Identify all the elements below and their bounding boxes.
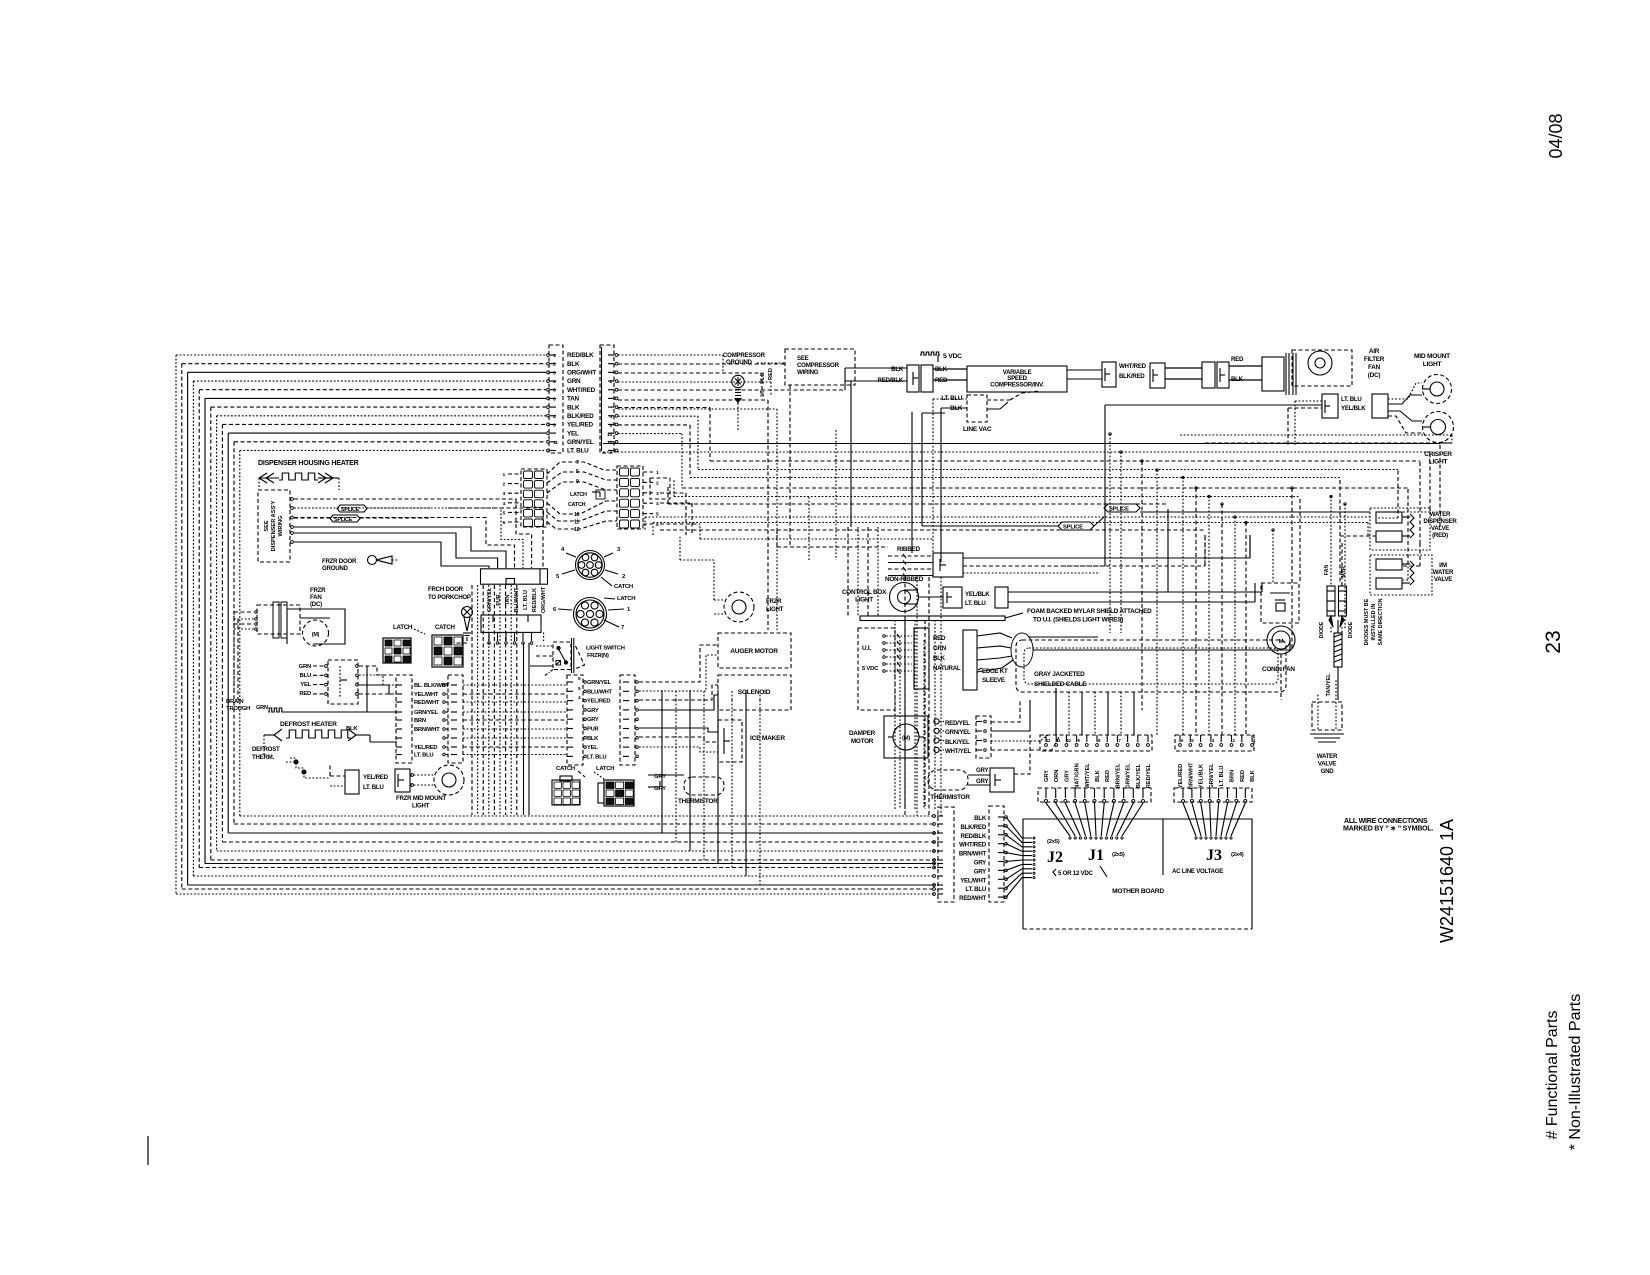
svg-text:WATER: WATER [1317,753,1338,760]
svg-text:RED: RED [1231,356,1244,363]
wire: mid band to frzr light [680,559,714,561]
svg-text:RIBBED: RIBBED [897,546,921,553]
svg-text:NATURAL: NATURAL [933,665,961,672]
header P1 (left) with pin row [1040,735,1152,751]
wire: frzr fan leads [255,611,258,614]
svg-text:FAN: FAN [1324,565,1330,576]
svg-text:WIRING: WIRING [797,369,819,376]
svg-text:CATCH: CATCH [435,624,456,631]
svg-text:11: 11 [574,520,579,526]
svg-text:LT. BLU: LT. BLU [965,886,986,893]
svg-text:LIGHT SWITCH: LIGHT SWITCH [586,646,625,652]
svg-text:5 OR 12 VDC: 5 OR 12 VDC [1058,870,1094,877]
svg-text:FAN: FAN [310,594,322,601]
svg-text:LIGHT: LIGHT [412,803,430,810]
wire bundle: verticals above UI bar [847,527,849,616]
svg-text:MARKED BY ” ∗ ” SYMBOL.: MARKED BY ” ∗ ” SYMBOL. [1343,825,1433,833]
wire: line vac BLK to splice [922,412,945,414]
water dispenser valve (red) [1370,508,1430,550]
svg-text:BLK: BLK [567,404,580,411]
latch grid connector [383,638,411,663]
svg-text:CRISPER: CRISPER [1424,451,1452,458]
header P2 (right) with pin row [1175,735,1254,751]
wire: cable feeds down to board header [1055,692,1057,735]
wire: line vac drops [932,399,934,556]
svg-text:YEL/RED: YEL/RED [567,422,593,429]
svg-text:FOAM BACKED MYLAR SHIELD ATTAC: FOAM BACKED MYLAR SHIELD ATTACHED [1027,608,1152,615]
svg-text:YEL/RED: YEL/RED [363,774,389,781]
margin tick mark [147,1136,149,1165]
svg-text:TROUGH: TROUGH [226,706,250,712]
svg-text:GRN/YEL: GRN/YEL [945,729,971,736]
svg-text:SOLENOID: SOLENOID [738,689,771,696]
svg-text:M: M [1279,639,1284,645]
thermistor (fresh food) [928,770,968,790]
svg-text:TO PORKCHOP: TO PORKCHOP [428,594,471,601]
ice maker [718,720,742,762]
svg-text:YEL/BLK: YEL/BLK [1341,405,1366,412]
wire bundle: middle distribution band [603,443,1440,445]
wire: compressor box drop to band [789,385,791,547]
wire bundle: cross links B to C [463,684,567,686]
svg-text:BLK/RED: BLK/RED [961,824,987,831]
check resistor [1334,633,1342,667]
svg-text:GRY: GRY [974,860,986,867]
connector: board side column [989,806,1004,902]
svg-text:YEL: YEL [300,682,311,688]
mid mount light lamp [1423,375,1452,404]
svg-text:RED/WHT: RED/WHT [414,700,440,706]
svg-text:BRN/WHT: BRN/WHT [414,727,440,733]
wire: light feed down centre [1105,404,1322,406]
wire bundle: right-side nest to valves [1439,445,1441,530]
svg-text:LT. BLU: LT. BLU [587,754,606,760]
vertical wires to diodes [1330,543,1332,586]
svg-text:J2: J2 [1047,849,1063,866]
svg-text:GRN/YEL: GRN/YEL [414,710,439,716]
svg-text:LT.: LT. [760,389,766,397]
svg-text:LT. BLU: LT. BLU [567,448,589,455]
svg-text:PUR: PUR [496,594,502,606]
svg-text:5 VDC: 5 VDC [862,666,879,672]
svg-text:SPLICE: SPLICE [1109,507,1129,513]
wire: splice taps [294,507,330,509]
svg-text:MID MOUNT: MID MOUNT [1414,353,1450,360]
svg-text:GRN/YEL: GRN/YEL [567,439,594,446]
frzr mid mount light lamp [434,765,464,795]
connector column C [567,675,583,765]
svg-text:FILTER: FILTER [1364,356,1385,363]
svg-text:DISPENSER: DISPENSER [1423,518,1457,525]
svg-text:BLK: BLK [587,736,599,742]
svg-text:BLK: BLK [974,815,987,822]
wire: C2 bottom rows into band risers [618,407,710,409]
svg-text:GRY: GRY [974,868,986,875]
svg-text:VALVE: VALVE [1434,576,1452,583]
wire: P3 fan-in to J1 [1046,803,1070,836]
svg-text:YEL: YEL [587,745,598,751]
water valve ground [1312,702,1342,730]
svg-text:YEL/WHT: YEL/WHT [414,692,439,698]
svg-text:(DC): (DC) [310,601,322,608]
svg-text:* Non-Illustrated Parts: * Non-Illustrated Parts [1567,994,1584,1151]
svg-text:LATCH: LATCH [596,766,614,772]
svg-text:LT. BLU: LT. BLU [523,590,529,610]
svg-text:LATCH: LATCH [617,596,635,602]
wire: C2 rows to PLG/RED drop wires [618,399,768,401]
svg-text:FRZR MID MOUNT: FRZR MID MOUNT [396,795,446,802]
svg-text:GRY: GRY [1044,770,1050,782]
compressor power switch [907,365,919,392]
connector: LT BLU YEL/BLK lights feed [1322,394,1338,418]
svg-text:5 VDC: 5 VDC [943,353,962,360]
svg-text:U.I.: U.I. [862,645,871,652]
wire: E2 tails to band [660,492,686,494]
svg-text:BLK/YEL: BLK/YEL [1136,763,1142,788]
svg-text:BRN/YEL: BRN/YEL [1115,763,1121,788]
svg-text:COND. FAN: COND. FAN [1262,666,1295,673]
line vac connector [967,395,987,422]
svg-text:AUGER MOTOR: AUGER MOTOR [730,648,778,655]
connector: harness to board (left column) [938,807,954,902]
wire bundle: band droppers to lower units [1109,434,1111,633]
wire: ribbed outputs [963,557,1250,559]
svg-text:SPLICE: SPLICE [1063,525,1083,531]
svg-text:GRN/YEL: GRN/YEL [487,587,493,612]
wire: lower band rows to ribbed region [700,538,933,540]
svg-text:BLK/YEL: BLK/YEL [945,739,970,746]
svg-text:7: 7 [576,460,579,466]
connector: porkchop bottom [481,615,541,632]
splice 3 [337,505,367,512]
round connector (latch) lower [574,598,607,631]
svg-text:04/08: 04/08 [1546,113,1566,158]
wire bundle: cabinet loom, left nest + top feed + bottom bus [176,354,546,356]
connector column B [448,675,463,763]
wire: damper to header [991,700,1020,722]
frch door ground symbol [462,607,473,618]
crisper light lamp [1423,412,1454,443]
round connector (catch) upper [576,551,605,580]
svg-text:LT. BLU: LT. BLU [965,600,986,607]
svg-text:FRZR(N): FRZR(N) [587,653,609,659]
wire: column fan to J2 [1006,817,1032,838]
wire: solid pair to bus [523,643,525,815]
svg-text:BLK/RED: BLK/RED [567,413,594,420]
svg-text:BLK: BLK [567,361,580,368]
svg-text:GRN/YEL: GRN/YEL [1209,763,1215,789]
wire: dispenser dashed drop to connector corner [448,508,543,568]
svg-text:RED: RED [1105,770,1111,782]
svg-text:ORN: ORN [1054,770,1060,783]
variable speed compressor/inverter [967,366,1067,392]
svg-text:VALVE: VALVE [1318,761,1336,768]
svg-text:FRZR: FRZR [310,587,326,594]
svg-text:RED/BLK: RED/BLK [567,352,594,359]
wire: water valve feeds [1367,523,1369,537]
svg-text:GRN: GRN [567,378,581,385]
svg-text:(2x4): (2x4) [1231,852,1244,858]
svg-text:THERMISTOR: THERMISTOR [930,794,970,801]
svg-text:DIODES MUST BE: DIODES MUST BE [1364,598,1370,645]
svg-text:GRY: GRY [976,767,988,774]
splice 4 [330,515,360,522]
wire: dispenser outputs staircase to door connector [291,498,294,501]
svg-text:GRY: GRY [587,708,599,714]
svg-text:GRY: GRY [1064,770,1070,782]
connector column A (freezer harness) [396,675,412,763]
svg-text:MTR: MTR [1341,566,1347,577]
frzr fan assembly [257,605,300,634]
wire bundle: centre verticals to bus [894,620,896,809]
connector C1 (12-pin, cabinet side) [549,345,563,453]
svg-text:W24151640 1A: W24151640 1A [1437,819,1457,943]
svg-text:BLK: BLK [1095,769,1101,782]
U.I. user interface block [858,628,895,710]
air filter fan lamp [1292,350,1352,386]
svg-text:RED/BLK: RED/BLK [961,833,987,840]
svg-text:LIGHT: LIGHT [1429,459,1448,466]
mother board [1023,819,1252,929]
svg-text:LIGHT: LIGHT [766,606,784,613]
svg-text:WHT/RED: WHT/RED [1119,363,1147,370]
svg-text:CONTROL BOX: CONTROL BOX [842,589,887,596]
svg-text:(2x5): (2x5) [1047,839,1060,845]
svg-text:TAN/YEL: TAN/YEL [1326,673,1332,696]
connector pair mid [1150,363,1165,388]
wire bundle: door harness verticals [471,585,473,815]
connector E1 (2x6 grid) [521,469,547,527]
wire: band risers from E2 tails [673,480,675,497]
header P3 row above motherboard [1038,788,1151,802]
light switch frzr [553,642,571,670]
svg-text:YEL/BLK: YEL/BLK [965,591,990,598]
svg-text:ICE MAKER: ICE MAKER [750,735,785,742]
svg-text:THERMISTOR: THERMISTOR [678,798,718,805]
auger motor [718,633,791,668]
svg-text:FAN: FAN [1368,364,1381,371]
svg-text:LT. BLU: LT. BLU [1219,766,1225,787]
svg-text:NAT/GRN: NAT/GRN [1075,763,1081,788]
svg-text:(DC): (DC) [1368,372,1381,379]
svg-text:INSTALLED IN: INSTALLED IN [1371,603,1377,640]
svg-text:BRN: BRN [414,718,426,724]
frzr door ground lug [368,556,377,565]
svg-text:YEL/RED: YEL/RED [1178,764,1184,789]
svg-text:NON-RIBBED: NON-RIBBED [885,576,924,583]
svg-text:SLEEVE: SLEEVE [982,677,1005,684]
svg-text:WHT/RED: WHT/RED [959,842,987,849]
splice 2 [1104,504,1140,512]
J2 pin stubs [1033,837,1035,839]
svg-text:WATER: WATER [1430,511,1451,518]
svg-text:AC LINE VOLTAGE: AC LINE VOLTAGE [1172,868,1223,875]
svg-text:FRZR: FRZR [766,598,782,605]
svg-text:DISPENSER ASS'Y: DISPENSER ASS'Y [271,500,277,551]
svg-text:WHT/YEL: WHT/YEL [945,748,971,755]
svg-text:RED/YEL: RED/YEL [1146,763,1152,788]
wire bundle: verticals to bottom bus [661,700,663,833]
svg-text:AIR: AIR [1369,348,1380,355]
shielded cable bundle [1011,633,1033,667]
air filter fan plug [1262,357,1284,391]
diode pair [1327,586,1335,616]
svg-text:PLG: PLG [760,372,766,384]
connector column D [620,675,635,765]
connector: damper plug [976,716,991,758]
svg-text:BLK: BLK [346,726,358,732]
svg-text:WIRING: WIRING [278,515,284,537]
connector: porkchop top [481,569,548,584]
wire bundle: band risers right of centre [1167,509,1169,592]
wire: column D to loads [639,645,718,682]
svg-text:YEL/RED: YEL/RED [587,699,610,705]
svg-text:BLU: BLU [300,673,311,679]
svg-text:BRN: BRN [1230,770,1236,782]
wire: cond fan down [1280,654,1282,700]
svg-text:YEL/BLK: YEL/BLK [1199,763,1205,788]
svg-text:GND: GND [1321,768,1335,775]
svg-text:# Functional Parts: # Functional Parts [1544,1011,1561,1140]
svg-text:J1: J1 [1088,847,1104,864]
svg-text:ORG/WHT: ORG/WHT [567,370,596,377]
svg-text:10: 10 [607,432,613,438]
box: see compressor wiring [785,349,855,385]
svg-text:LINE VAC: LINE VAC [963,426,992,433]
svg-text:BLK/RED: BLK/RED [1119,373,1145,380]
svg-text:RED/WHT: RED/WHT [959,895,986,902]
connector: frzr mid mount light [345,770,359,794]
svg-text:12: 12 [574,527,580,533]
svg-text:YEL/RED: YEL/RED [414,745,437,751]
svg-text:(2x5): (2x5) [1112,852,1125,858]
wire: C2 row2-5 to compressor switch [618,363,785,365]
svg-text:SEE: SEE [264,520,270,532]
wire: compressor run pair [1067,369,1102,371]
svg-text:(RED): (RED) [1432,532,1448,539]
wire bundle: risers from latch region into bus [904,577,906,816]
svg-text:10: 10 [574,512,580,518]
svg-text:GRAY JACKETED: GRAY JACKETED [1034,671,1085,678]
wire: P4 fan-in to J3 [1183,803,1196,836]
svg-text:RED: RED [299,691,311,697]
catch grid connector [432,635,463,667]
connector: RED BLK to fan plug [1202,362,1215,388]
header P4 row above motherboard [1174,788,1252,802]
splice 1 [1058,522,1094,530]
svg-text:WATER: WATER [1433,569,1454,576]
svg-text:YEL: YEL [567,430,579,437]
svg-text:ORN/WHT: ORN/WHT [1188,762,1194,790]
svg-text:GROUND: GROUND [726,359,753,366]
svg-text:VALVE: VALVE [1431,525,1449,532]
svg-text:(M): (M) [312,632,320,638]
i/m water valve [1370,555,1432,595]
svg-text:BLK: BLK [1250,769,1256,782]
svg-text:COMPRESSOR/INV.: COMPRESSOR/INV. [990,382,1044,389]
svg-text:CATCH: CATCH [614,584,633,590]
svg-text:THERM.: THERM. [252,754,275,761]
svg-text:11: 11 [553,440,558,446]
box: see dispenser wiring assy [258,490,290,562]
connector: control box light plug [943,587,962,608]
wire: lights loop to band [1295,400,1322,402]
svg-text:DEFROST HEATER: DEFROST HEATER [280,721,337,728]
connector: UI harness [914,628,929,689]
svg-text:GROUND: GROUND [322,565,349,572]
solenoid [718,675,791,710]
svg-text:RED: RED [1240,770,1246,782]
svg-text:GRN: GRN [299,664,311,670]
svg-text:SAME DIRECTION: SAME DIRECTION [1378,598,1384,645]
svg-text:FRCH DOOR: FRCH DOOR [428,586,464,593]
svg-text:WHT/YEL: WHT/YEL [1085,763,1091,789]
svg-text:LATCH: LATCH [570,492,587,498]
svg-text:RED/BLK: RED/BLK [532,588,538,612]
svg-text:YEL/WHT: YEL/WHT [960,877,986,884]
svg-text:LIGHT: LIGHT [1423,361,1442,368]
svg-text:DAMPER: DAMPER [849,730,876,737]
dispenser housing heater element [266,473,274,478]
svg-text:COMPRESSOR: COMPRESSOR [723,352,766,359]
svg-text:FRZR DOOR: FRZR DOOR [322,558,357,565]
wire: lamp feeds [1388,383,1422,399]
svg-text:J3: J3 [1206,847,1222,864]
svg-text:LT. BLU: LT. BLU [363,784,384,791]
svg-text:I/M: I/M [1439,562,1447,569]
svg-text:GRY: GRY [976,778,988,785]
connector C2 (12-pin, door side) [600,345,614,453]
mylar shield bar [860,616,1005,621]
wire: control box light feed [1008,591,1262,593]
connector: light plug [395,769,410,792]
svg-text:DRAIN: DRAIN [226,699,243,705]
wire: crisper return lines [1180,434,1452,436]
svg-text:GRY: GRY [587,717,599,723]
svg-text:ORG/WHT: ORG/WHT [541,586,547,613]
wire: splice runs [921,413,923,526]
connector E2 (2x6 grid) [617,466,643,529]
junction pins on band droppers [1109,433,1111,435]
svg-text:DEFROST: DEFROST [252,746,280,753]
junction box on band [650,478,670,499]
5 VDC source [920,352,940,355]
svg-text:MOTOR: MOTOR [851,738,874,745]
frzr light lamp [724,592,754,622]
svg-text:COMPRESSOR: COMPRESSOR [797,362,840,369]
svg-text:SHIELDED CABLE: SHIELDED CABLE [1034,681,1086,688]
svg-text:PUR: PUR [587,727,600,733]
svg-text:GRN: GRN [256,705,268,711]
wire: C2 row1 to compressor ground [618,354,723,356]
svg-text:RED/YEL: RED/YEL [945,720,970,727]
svg-text:BLK: BLK [891,366,904,373]
svg-text:CATCH: CATCH [556,766,575,772]
svg-text:DISPENSER HOUSING HEATER: DISPENSER HOUSING HEATER [258,459,359,467]
svg-text:WHT/RED: WHT/RED [567,387,596,394]
svg-text:LT. BLU: LT. BLU [1341,396,1362,403]
svg-text:LATCH: LATCH [393,624,413,631]
svg-text:GRN/YEL: GRN/YEL [1126,763,1132,789]
svg-text:TAN: TAN [567,396,580,403]
svg-text:DIODE: DIODE [1319,621,1325,638]
svg-text:SEE: SEE [797,355,809,362]
condenser fan [1261,583,1299,623]
svg-text:DIODE: DIODE [1348,621,1354,638]
connector: WHT/RED BLK/RED [1102,362,1116,387]
svg-text:BLU/WHT: BLU/WHT [587,689,613,695]
svg-text:GRN/YEL: GRN/YEL [587,680,612,686]
